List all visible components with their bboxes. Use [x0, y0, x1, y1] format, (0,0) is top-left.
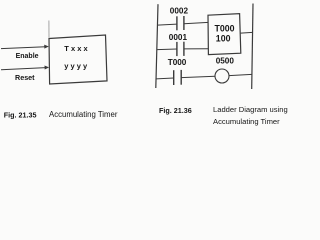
left power rail	[156, 4, 158, 88]
svg-text:Reset: Reset	[15, 73, 35, 82]
svg-text:y y y y: y y y y	[64, 62, 88, 71]
contact 0001	[177, 42, 184, 56]
timer block T000	[208, 14, 241, 55]
contact T000	[174, 70, 182, 85]
wire rung 3 to coil	[181, 76, 215, 77]
wire rung 2 left	[157, 48, 177, 51]
svg-text:T000: T000	[168, 58, 187, 67]
svg-text:T x x x: T x x x	[64, 44, 88, 53]
svg-text:100: 100	[216, 34, 231, 44]
svg-text:Enable: Enable	[16, 53, 39, 60]
svg-text:Fig. 21.36: Fig. 21.36	[159, 106, 192, 115]
wire coil to right rail	[229, 74, 252, 75]
svg-text:Ladder Diagram using: Ladder Diagram using	[213, 105, 288, 114]
wire rung 2 right	[184, 48, 208, 50]
svg-text:0002: 0002	[170, 7, 189, 16]
svg-text:T000: T000	[215, 23, 235, 33]
contact 0002	[177, 16, 184, 30]
svg-text:0001: 0001	[169, 33, 188, 42]
wire Reset input	[1, 66, 49, 70]
faint scan line above block	[48, 21, 50, 38]
wire Enable input	[1, 45, 49, 49]
svg-text:0500: 0500	[216, 57, 235, 66]
wire rung 1 left	[158, 24, 177, 25]
wire rung 1 right	[184, 22, 208, 23]
svg-text:Accumulating Timer: Accumulating Timer	[213, 117, 280, 126]
coil 0500	[215, 69, 229, 83]
wire rung 3 left	[156, 77, 174, 80]
svg-text:Accumulating Timer: Accumulating Timer	[49, 110, 118, 119]
svg-text:Fig. 21.35: Fig. 21.35	[4, 111, 37, 120]
timer function block	[49, 35, 107, 84]
right power rail	[252, 4, 253, 90]
wire timer output	[241, 31, 253, 34]
